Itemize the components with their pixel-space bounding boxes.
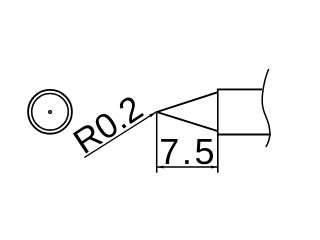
cylinder top line — [217, 88, 262, 90]
leader line for R0.2 — [84, 112, 157, 158]
break curve — [262, 69, 270, 147]
dimension line — [157, 166, 218, 168]
cone lower line — [157, 112, 218, 131]
leader arrowhead — [149, 112, 157, 118]
cone upper line — [157, 92, 218, 112]
left extension line — [156, 113, 158, 173]
cylinder bottom line — [217, 134, 271, 136]
dimension arrow left — [157, 166, 164, 169]
center dot — [49, 111, 52, 114]
dimension arrow right — [211, 166, 218, 169]
tip end-view inner circle — [32, 94, 69, 131]
tip end-view outer circle — [28, 90, 72, 134]
svg-text:7.5: 7.5 — [159, 131, 217, 172]
cylinder left vertical edge + right extension line — [217, 89, 219, 173]
